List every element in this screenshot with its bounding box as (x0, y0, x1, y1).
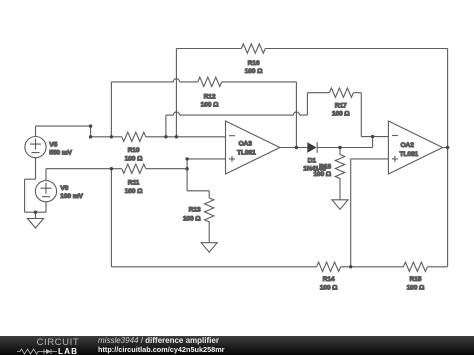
svg-text:100 Ω: 100 Ω (313, 171, 331, 178)
diode D1 (303, 142, 326, 173)
wire R12 right to corner (222, 81, 297, 83)
wire diode node up to OA2 minus (372, 137, 374, 148)
wire V6 top lead (45, 169, 47, 181)
wire bottom rail to R14 (111, 266, 316, 268)
wire detour down (24, 179, 26, 212)
svg-text:R14: R14 (323, 276, 335, 283)
wire V6 bottom lead (45, 202, 47, 212)
svg-text:100 Ω: 100 Ω (125, 188, 143, 195)
wire vertical up to R17 row (306, 93, 308, 115)
svg-text:100 Ω: 100 Ω (407, 285, 425, 292)
svg-text:R18: R18 (319, 163, 331, 170)
svg-text:100 mV: 100 mV (60, 193, 83, 200)
wire vertical R12 right down to OA3 output (295, 82, 297, 148)
wire R16 left horizontal (176, 48, 241, 50)
svg-text:550 mV: 550 mV (49, 149, 72, 156)
wire V5 top to node A (36, 125, 91, 127)
svg-text:R16: R16 (248, 60, 260, 67)
wire R10 right to OA3 minus input (146, 136, 226, 138)
svg-text:100 Ω: 100 Ω (332, 111, 350, 118)
resistor R16 (241, 44, 265, 75)
resistor R17 (329, 88, 353, 118)
wire R12 left with hop over x=176.4 (111, 79, 197, 82)
resistor R14 (317, 262, 341, 292)
svg-text:100 Ω: 100 Ω (201, 102, 219, 109)
svg-text:R15: R15 (409, 276, 421, 283)
wire R17 right horizontal (353, 92, 361, 94)
wire OA3 plus input (187, 158, 225, 160)
voltage source V6 (35, 181, 83, 202)
svg-text:OA3: OA3 (239, 140, 253, 147)
wire node C vertical (186, 159, 188, 191)
op-amp OA2 (388, 121, 442, 174)
wire OA2 plus vertical down (350, 159, 352, 267)
ground under R18 (332, 200, 348, 210)
svg-text:D1: D1 (308, 158, 317, 165)
resistor R10 (122, 132, 146, 162)
ground under R13 (201, 243, 217, 253)
resistor R11 (122, 164, 146, 195)
wire R15 right to rail (427, 266, 447, 268)
wire y=115 row with hops (166, 112, 308, 115)
wire R17 right vertical down (360, 93, 362, 137)
svg-text:TL081: TL081 (400, 151, 419, 158)
wire R11 node vertical down to bottom rail (110, 169, 112, 267)
svg-text:100 Ω: 100 Ω (183, 215, 201, 222)
wire OA2 output (443, 147, 448, 149)
op-amp OA3 (226, 121, 280, 174)
wire to R13 top (187, 190, 209, 192)
resistor R18 (313, 148, 344, 200)
svg-text:R12: R12 (204, 93, 216, 100)
wire detour left (25, 178, 36, 180)
svg-text:R11: R11 (128, 180, 140, 187)
svg-text:OA2: OA2 (401, 142, 415, 149)
svg-text:V6: V6 (60, 185, 68, 192)
svg-text:R13: R13 (189, 207, 201, 214)
wire R14 right to R15 left (341, 266, 404, 268)
wire corner down at x=90.6 (90, 126, 92, 137)
svg-text:100 Ω: 100 Ω (125, 156, 143, 163)
wire V5 bottom lead (35, 158, 37, 180)
wire diode cathode to OA2 path (317, 147, 372, 149)
wire R11 right to node C (146, 168, 187, 170)
resistor R15 (403, 262, 427, 292)
wire OA2 plus input (351, 158, 389, 160)
wire OA2 minus input (361, 136, 388, 138)
ground at sources (28, 219, 44, 229)
wire vertical OA3 minus node up (165, 115, 167, 137)
svg-text:R17: R17 (335, 103, 347, 110)
wire OA3 output (280, 147, 308, 149)
wire bottom node to V6 bottom (25, 211, 46, 213)
wire ground stub at sources (35, 212, 37, 218)
wire V5 top lead (35, 126, 37, 136)
svg-text:V5: V5 (49, 142, 57, 149)
svg-text:100 Ω: 100 Ω (320, 285, 338, 292)
svg-text:100 Ω: 100 Ω (245, 68, 263, 75)
voltage source V5 (25, 137, 73, 158)
wire R16 right horizontal to right rail (265, 48, 447, 50)
wire vertical node A up to R12 row (110, 82, 112, 137)
svg-text:TL081: TL081 (237, 149, 256, 156)
wire V6 top to R11 (46, 168, 122, 170)
wire R17 left horizontal (307, 92, 329, 94)
wire node A horizontal into R10 (91, 136, 122, 138)
svg-text:R10: R10 (128, 147, 140, 154)
resistor R12 (198, 77, 222, 108)
wire right rail vertical (447, 49, 449, 267)
resistor R13 (183, 191, 214, 243)
wire vertical R16 left leg (175, 49, 177, 137)
node dots (34, 124, 450, 268)
